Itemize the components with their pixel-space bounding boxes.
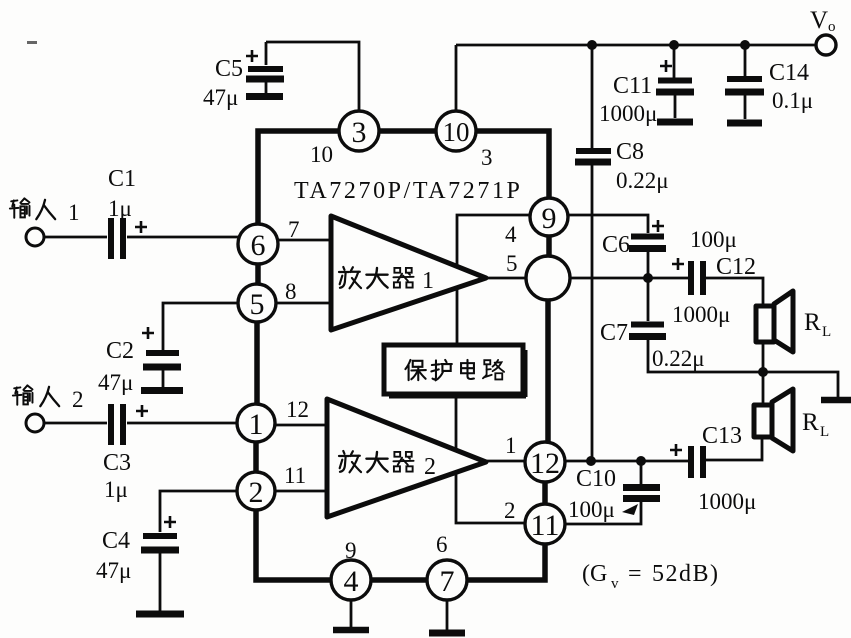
label amplifier 1	[339, 267, 434, 294]
label speaker RL2	[802, 409, 829, 440]
wire output1 node to C12	[570, 277, 688, 280]
pin label 4	[505, 222, 517, 247]
capacitor C6	[629, 220, 666, 249]
IC bus pin6-pin5	[255, 262, 261, 285]
svg-text:0.22μ: 0.22μ	[652, 346, 705, 371]
pin circle 11	[525, 504, 565, 544]
svg-text:11: 11	[531, 509, 560, 542]
pin circle 1	[237, 404, 275, 442]
svg-text:1000μ: 1000μ	[599, 101, 657, 126]
stray mark top left	[27, 41, 37, 44]
value C11 1000u	[599, 101, 657, 126]
value C4 47u	[96, 558, 131, 583]
pin label 7	[288, 217, 300, 242]
ground C4	[136, 611, 184, 618]
ground C5	[246, 93, 283, 100]
svg-text:C5: C5	[215, 56, 243, 82]
label C12	[716, 254, 756, 280]
wire pin 5 to C2	[163, 303, 238, 350]
pin label 8	[285, 279, 297, 304]
svg-text:100μ: 100μ	[690, 227, 737, 252]
pin label 11	[284, 463, 306, 488]
svg-text:1: 1	[422, 268, 434, 294]
wire C8 branch from rail to output node	[591, 45, 594, 461]
pin circle 3	[339, 111, 379, 151]
svg-text:4: 4	[505, 222, 517, 247]
wire C6 to output node	[647, 252, 650, 278]
wire speaker midpoint to ground	[763, 372, 838, 397]
svg-text:10: 10	[310, 142, 333, 167]
svg-text:(G: (G	[582, 561, 607, 587]
label input 1	[10, 198, 80, 225]
svg-text:C11: C11	[613, 73, 652, 99]
label protection circuit	[405, 360, 504, 380]
svg-text:0.22μ: 0.22μ	[616, 168, 669, 193]
value C8 0.22u	[616, 168, 669, 193]
ground pin 7	[429, 600, 465, 633]
IC bus pin9 to out circle	[546, 235, 552, 258]
IC bus pin1-pin2	[253, 441, 259, 473]
label C14	[769, 60, 809, 86]
wire C1 to pin circle 6	[127, 236, 240, 239]
wire pin 7 input amp1	[278, 239, 334, 242]
wire C10 top lead	[640, 461, 643, 484]
value C1 1u	[108, 196, 132, 221]
IC bus pin5-pin1	[254, 321, 260, 405]
svg-text:C12: C12	[716, 254, 756, 280]
capacitor C1	[111, 218, 147, 259]
svg-text:R: R	[804, 309, 821, 336]
svg-text:2: 2	[72, 387, 84, 412]
svg-text:C1: C1	[108, 166, 136, 192]
svg-text:C8: C8	[616, 139, 644, 165]
capacitor C3	[111, 404, 148, 445]
svg-text:7: 7	[440, 565, 455, 598]
svg-text:2: 2	[424, 454, 436, 480]
wire C5 to pin 3	[266, 42, 359, 113]
wire pin 12 output to C13	[566, 460, 688, 463]
svg-text:C4: C4	[102, 528, 130, 554]
wire top supply rail	[456, 44, 816, 47]
value C12 1000u	[672, 302, 730, 327]
input terminal 1	[26, 228, 44, 246]
svg-text:1: 1	[505, 433, 517, 458]
wire amp1 output to pin circle	[484, 277, 527, 280]
junction node output2-C10	[636, 456, 646, 466]
label C10	[576, 466, 616, 492]
wire pin 2 to C4	[160, 491, 237, 532]
svg-text:8: 8	[285, 279, 297, 304]
svg-text:9: 9	[345, 538, 357, 563]
junction node speaker midpoint	[758, 367, 768, 377]
label C2	[106, 338, 134, 364]
value C10 100u	[568, 497, 615, 522]
label Vcc	[810, 7, 836, 35]
IC bus out circle to pin12	[545, 298, 551, 443]
svg-text:L: L	[822, 324, 831, 340]
label C1	[108, 166, 136, 192]
svg-text:3: 3	[481, 145, 493, 170]
pin circle 5	[238, 284, 276, 322]
label C6	[602, 232, 630, 258]
svg-text:2: 2	[249, 476, 264, 509]
wire pin 11 input amp2	[276, 490, 330, 493]
svg-text:C2: C2	[106, 338, 134, 364]
svg-text:C10: C10	[576, 466, 616, 492]
pin label 3	[481, 145, 493, 170]
capacitor C10	[623, 488, 660, 499]
svg-text:0.1μ: 0.1μ	[772, 88, 813, 113]
speaker RL1	[756, 291, 793, 352]
svg-text:10: 10	[443, 117, 470, 147]
wire midpoint to speaker RL2	[762, 372, 765, 405]
svg-text:47μ: 47μ	[96, 558, 131, 583]
label C11	[613, 73, 652, 99]
wire C12 to speaker RL1	[706, 278, 763, 306]
svg-text:6: 6	[436, 532, 448, 557]
pin circle 9	[530, 198, 568, 236]
IC bus pin7 to pin11	[466, 544, 545, 580]
svg-text:4: 4	[344, 565, 359, 598]
wire C7 to speaker midpoint	[648, 340, 763, 372]
ground C2	[141, 387, 183, 394]
pin circle 4	[331, 560, 371, 600]
wire node to C7	[647, 278, 650, 321]
label IC part number TA7270P/TA7271P	[294, 178, 523, 204]
label C13	[702, 423, 742, 449]
pin label 2	[504, 498, 516, 523]
svg-text:C6: C6	[602, 232, 630, 258]
label C7	[600, 320, 628, 346]
value C14 0.1u	[772, 88, 813, 113]
label C3	[103, 450, 131, 476]
pin label 5	[506, 251, 518, 276]
input terminal 2	[26, 414, 44, 432]
svg-text:C14: C14	[769, 60, 809, 86]
wire input1 to C1	[44, 236, 107, 239]
capacitor C8	[575, 151, 611, 162]
pin label 1	[505, 433, 517, 458]
label C8	[616, 139, 644, 165]
label gain Gv=52dB	[582, 561, 720, 592]
label C5	[215, 56, 243, 82]
svg-text:100μ: 100μ	[568, 497, 615, 522]
wire C14 lead from rail	[744, 45, 747, 77]
junction node output1-C6	[643, 273, 653, 283]
IC body bus top	[258, 131, 549, 226]
junction node rail-C11	[669, 40, 679, 50]
svg-text:1: 1	[249, 408, 264, 441]
pin circle output1	[526, 256, 570, 300]
pin circle 2	[237, 472, 275, 510]
svg-text:L: L	[820, 424, 829, 440]
junction node output2-C8	[586, 456, 596, 466]
wire pin 9 to C6	[568, 215, 648, 233]
wire C3 to pin circle 1	[127, 422, 237, 425]
svg-text:C3: C3	[103, 450, 131, 476]
IC bus pin2 to bottom rail	[256, 509, 332, 580]
capacitor C13	[670, 444, 703, 478]
wire speaker RL2 bottom to C13	[706, 437, 762, 460]
value C13 1000u	[698, 489, 756, 514]
label C4	[102, 528, 130, 554]
svg-text:52dB): 52dB)	[652, 561, 720, 587]
svg-text:7: 7	[288, 217, 300, 242]
svg-text:3: 3	[352, 116, 367, 149]
wire amp2 output to pin circle 12	[484, 460, 525, 463]
svg-text:1000μ: 1000μ	[698, 489, 756, 514]
value C6 100u	[690, 227, 737, 252]
capacitor C12	[672, 258, 703, 295]
value C3 1u	[104, 477, 128, 502]
junction node rail-C14	[740, 40, 750, 50]
svg-text:1000μ: 1000μ	[672, 302, 730, 327]
svg-text:47μ: 47μ	[98, 370, 133, 395]
ground C14	[727, 120, 762, 127]
capacitor C11	[656, 60, 694, 118]
wire pin 12 input amp2	[276, 424, 330, 427]
wire rail drop to pin circle 10	[455, 45, 458, 113]
wire pin 9/4 to protection circuit	[457, 215, 530, 343]
value C5 47u	[203, 85, 238, 110]
svg-text:5: 5	[506, 251, 518, 276]
pin circle 12	[525, 442, 565, 482]
wire pin 8 input amp1	[277, 302, 334, 305]
pin circle 6	[238, 224, 278, 264]
ground speaker return	[821, 397, 851, 404]
capacitor C4	[141, 516, 179, 611]
protection circuit box	[384, 345, 526, 397]
capacitor C7	[629, 325, 666, 337]
svg-text:V: V	[810, 7, 828, 34]
svg-text:1μ: 1μ	[104, 477, 128, 502]
value C2 47u	[98, 370, 133, 395]
capacitor C14	[725, 79, 764, 119]
wire C11 lead from rail	[673, 45, 676, 78]
value C7 0.22u	[652, 346, 705, 371]
IC bus pin12-pin11	[542, 481, 548, 504]
label input 2	[13, 385, 84, 412]
pin circle 10	[436, 111, 476, 151]
label amplifier 2	[339, 451, 436, 480]
wire C10 bottom to pin 11	[566, 502, 641, 524]
op-amp U1 amplifier 1	[331, 216, 486, 330]
svg-text:C7: C7	[600, 320, 628, 346]
svg-text:9: 9	[542, 202, 557, 235]
svg-text:1μ: 1μ	[108, 196, 132, 221]
pin label 12	[286, 397, 309, 422]
ground pin 4	[333, 600, 369, 630]
supply terminal Vcc	[816, 35, 836, 55]
svg-text:2: 2	[504, 498, 516, 523]
op-amp U2 amplifier 2	[327, 399, 486, 517]
capacitor C2	[142, 327, 181, 387]
pin circle 7	[427, 560, 467, 600]
label speaker RL1	[804, 309, 831, 340]
polarity arrow C10	[622, 504, 638, 515]
svg-text:11: 11	[284, 463, 306, 488]
wire protection circuit to pin 11/2	[456, 396, 525, 523]
svg-text:6: 6	[251, 229, 266, 262]
wire speaker RL1 bottom to midpoint	[762, 342, 765, 372]
pin label 6	[436, 532, 448, 557]
pin label 10	[310, 142, 333, 167]
wire input2 to C3	[44, 422, 107, 425]
pin label 9	[345, 538, 357, 563]
svg-text:v: v	[611, 576, 619, 592]
svg-text:R: R	[802, 409, 819, 436]
svg-text:12: 12	[286, 397, 309, 422]
svg-text:TA7270P/TA7271P: TA7270P/TA7271P	[294, 178, 523, 204]
svg-text:1: 1	[68, 200, 80, 225]
svg-text:12: 12	[530, 447, 560, 480]
ground C11	[657, 119, 693, 126]
speaker RL2	[754, 389, 793, 451]
svg-text:=: =	[628, 561, 642, 587]
junction node rail-C8	[587, 40, 597, 50]
IC bus pin4-pin7 bottom	[370, 577, 428, 583]
svg-text:5: 5	[250, 288, 265, 321]
svg-text:C13: C13	[702, 423, 742, 449]
capacitor C5	[246, 42, 284, 93]
svg-text:47μ: 47μ	[203, 85, 238, 110]
svg-text:o: o	[828, 19, 836, 35]
